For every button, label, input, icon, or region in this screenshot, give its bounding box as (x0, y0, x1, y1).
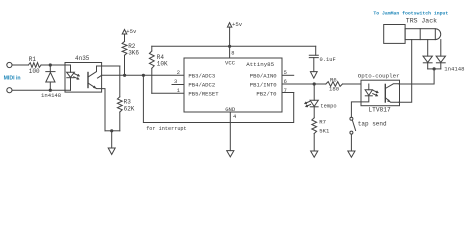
svg-text:+5v: +5v (126, 28, 137, 35)
svg-text:6: 6 (284, 79, 287, 85)
svg-text:5K1: 5K1 (319, 128, 330, 135)
svg-text:PB0/AIN0: PB0/AIN0 (250, 73, 277, 80)
svg-text:1n4148: 1n4148 (444, 66, 464, 73)
svg-text:4: 4 (233, 114, 236, 120)
svg-text:3: 3 (174, 79, 177, 85)
svg-text:+5v: +5v (232, 21, 243, 28)
svg-text:5: 5 (284, 70, 287, 76)
svg-text:R7: R7 (319, 118, 326, 125)
svg-text:for interrupt: for interrupt (146, 126, 186, 132)
svg-text:PB5/RESET: PB5/RESET (188, 91, 219, 98)
svg-text:8: 8 (231, 50, 234, 56)
svg-text:PB3/ADC3: PB3/ADC3 (188, 73, 215, 80)
svg-text:tempo: tempo (320, 104, 336, 110)
svg-text:tap send: tap send (358, 121, 387, 128)
svg-text:10K: 10K (157, 60, 168, 67)
svg-text:100: 100 (29, 68, 40, 75)
svg-text:MIDI in: MIDI in (4, 76, 21, 82)
svg-text:R6: R6 (330, 76, 337, 83)
svg-text:1: 1 (177, 88, 180, 94)
svg-text:PB2/T0: PB2/T0 (256, 91, 277, 98)
svg-text:1n4148: 1n4148 (41, 92, 61, 99)
svg-text:To JamMan footswitch input: To JamMan footswitch input (373, 11, 448, 17)
svg-text:2: 2 (177, 70, 180, 76)
svg-text:3K6: 3K6 (128, 50, 139, 57)
svg-text:7: 7 (284, 88, 287, 94)
svg-text:R3: R3 (124, 98, 132, 105)
svg-text:GND: GND (225, 106, 236, 113)
svg-text:4n35: 4n35 (75, 55, 90, 62)
svg-text:LTV817: LTV817 (368, 107, 391, 114)
svg-text:0.1uF: 0.1uF (320, 57, 336, 63)
svg-text:62K: 62K (124, 105, 135, 112)
svg-text:TRS Jack: TRS Jack (406, 18, 437, 25)
svg-text:PB1/INT0: PB1/INT0 (250, 82, 277, 89)
svg-text:R1: R1 (29, 56, 37, 63)
svg-text:180: 180 (329, 86, 340, 93)
svg-text:Attiny85: Attiny85 (246, 61, 274, 68)
svg-text:PB4/ADC2: PB4/ADC2 (188, 82, 215, 89)
svg-text:Opto-coupler: Opto-coupler (358, 73, 400, 80)
svg-text:VCC: VCC (225, 60, 236, 67)
